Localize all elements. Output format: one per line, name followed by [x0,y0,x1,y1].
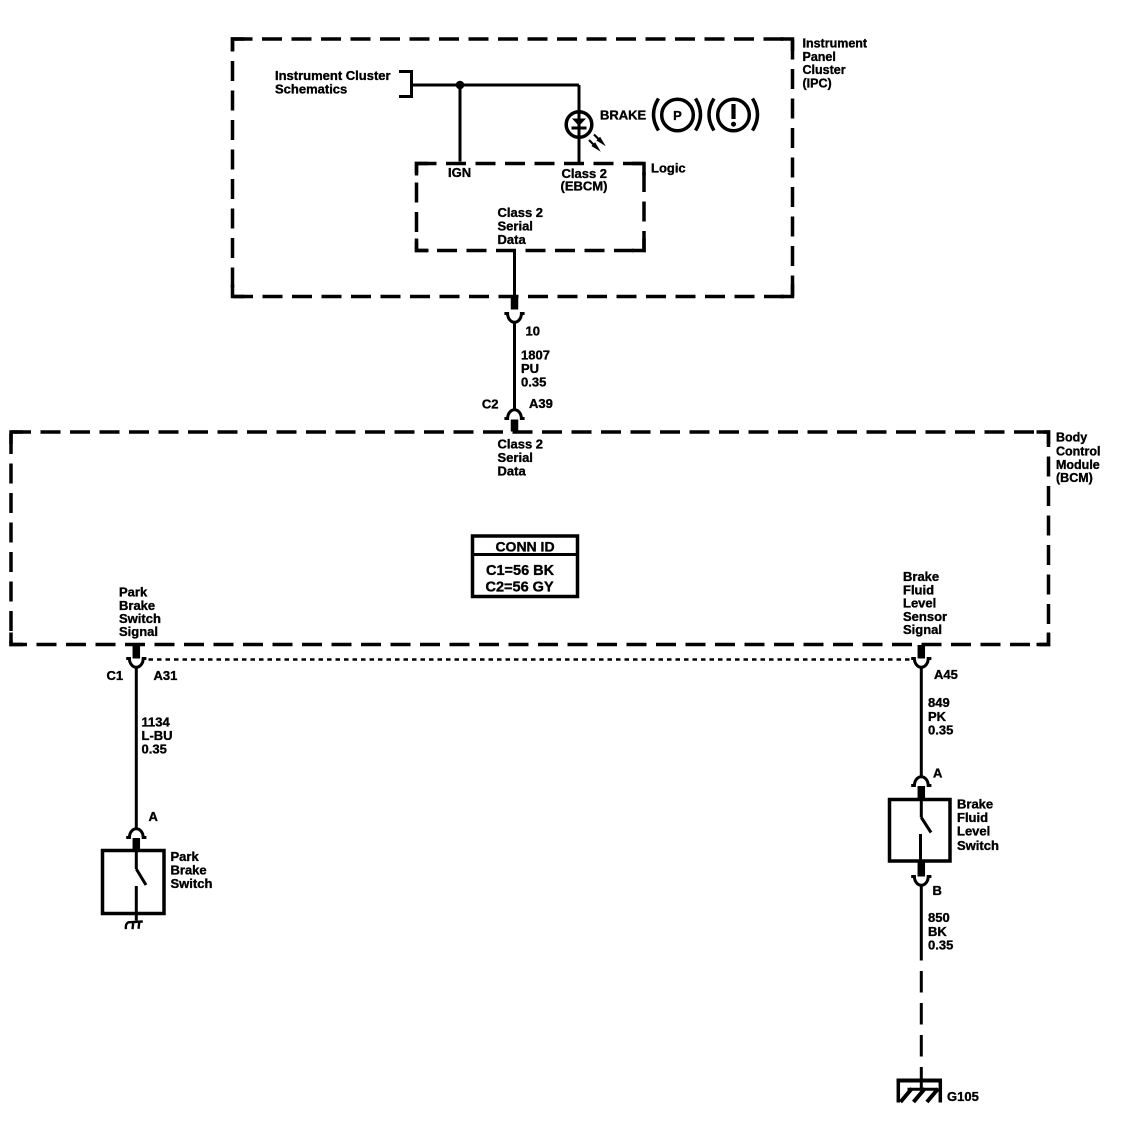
svg-text:P: P [673,108,682,123]
svg-text:C1=56 BK: C1=56 BK [486,563,555,579]
svg-text:Switch: Switch [171,876,213,891]
svg-text:Module: Module [1056,458,1100,472]
svg-text:Data: Data [498,464,527,479]
svg-text:IGN: IGN [448,165,471,180]
svg-text:C1: C1 [107,668,124,683]
svg-text:C2=56 GY: C2=56 GY [486,579,554,595]
svg-text:Instrument: Instrument [803,37,868,51]
svg-text:Signal: Signal [119,624,158,639]
svg-text:849: 849 [928,695,950,710]
svg-text:A: A [933,766,943,781]
svg-text:B: B [933,883,942,898]
svg-text:Signal: Signal [903,622,942,637]
svg-text:CONN ID: CONN ID [495,539,554,555]
svg-text:10: 10 [526,324,540,339]
svg-text:Control: Control [1056,445,1100,459]
svg-text:Switch: Switch [957,838,999,853]
svg-text:Level: Level [957,824,990,839]
svg-text:0.35: 0.35 [928,938,953,953]
svg-text:Body: Body [1056,431,1087,445]
svg-text:BRAKE: BRAKE [600,107,647,122]
svg-text:0.35: 0.35 [928,723,953,738]
svg-text:(IPC): (IPC) [803,77,832,91]
svg-text:BK: BK [928,924,947,939]
svg-text:(EBCM): (EBCM) [561,178,608,193]
svg-text:A31: A31 [154,668,178,683]
svg-text:G105: G105 [947,1089,979,1104]
svg-text:0.35: 0.35 [142,741,167,756]
svg-text:Cluster: Cluster [803,63,846,77]
svg-text:A: A [149,809,159,824]
svg-text:Logic: Logic [651,161,686,176]
svg-text:850: 850 [928,910,950,925]
svg-text:(BCM): (BCM) [1056,471,1093,485]
svg-text:Panel: Panel [803,50,836,64]
svg-text:0.35: 0.35 [521,374,546,389]
svg-text:A45: A45 [934,667,958,682]
svg-text:A39: A39 [529,396,553,411]
svg-text:C2: C2 [482,397,499,412]
svg-text:Data: Data [498,232,527,247]
svg-text:Schematics: Schematics [275,82,347,97]
